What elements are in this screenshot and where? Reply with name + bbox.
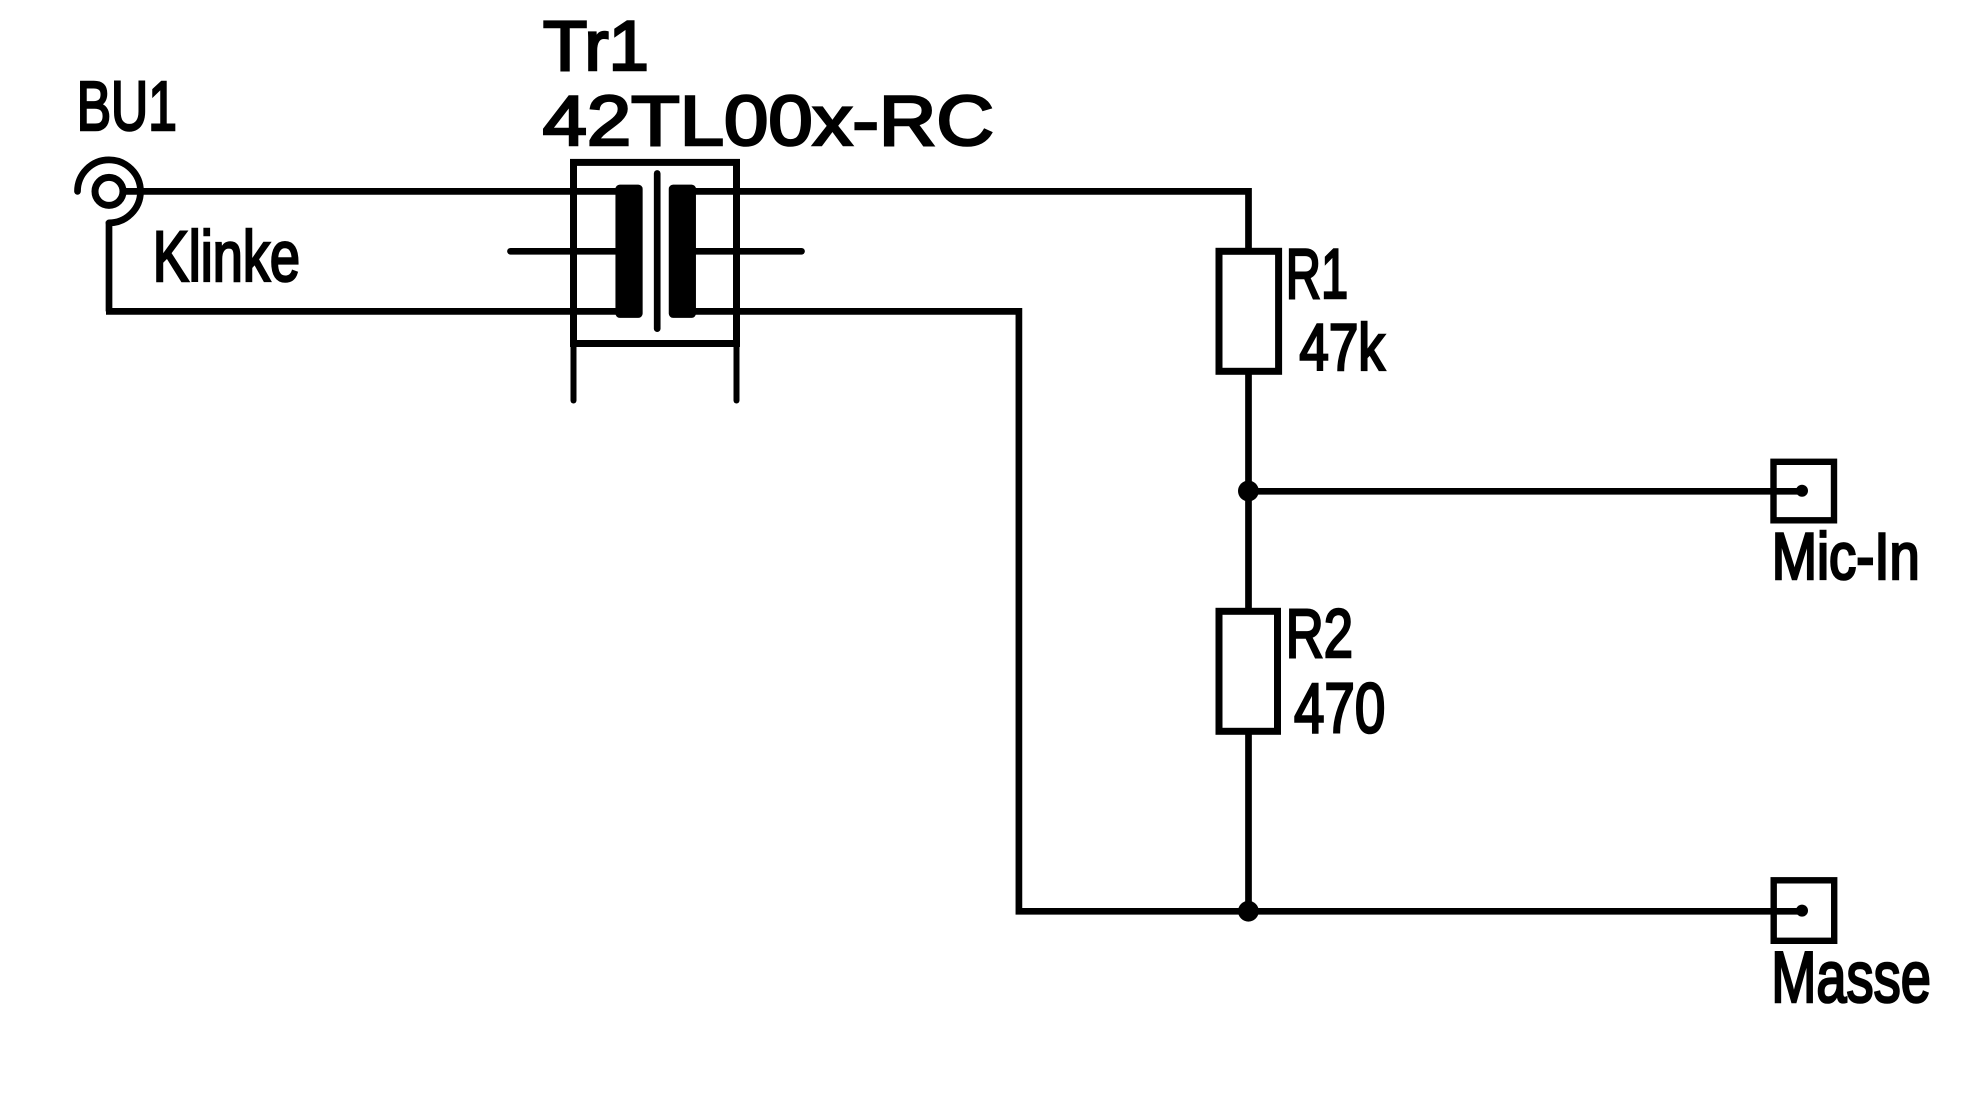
connector BU1 jack outer arc (78, 160, 141, 223)
pad Mic-In square (1774, 462, 1835, 521)
wire: jack BU1 tip to transformer primary top (net to Tr1 pin) (120, 188, 629, 195)
node B ground junction dot (1238, 901, 1259, 922)
svg-text:Mic-In: Mic-In (1772, 520, 1920, 593)
pad Masse pin dot (1796, 905, 1808, 917)
svg-text:42TL00x-RC: 42TL00x-RC (543, 81, 994, 160)
pad Mic-In pin dot (1796, 485, 1808, 497)
connector BU1 jack inner ring (95, 177, 123, 205)
node A junction dot (1238, 481, 1259, 502)
svg-text:Tr1: Tr1 (543, 7, 649, 86)
wire: jack sleeve to transformer primary bottom (106, 308, 629, 315)
svg-text:470: 470 (1294, 669, 1385, 748)
transformer Tr1 core line (654, 174, 661, 329)
transformer U1 Tr1 outline box (574, 162, 737, 343)
wire: transformer secondary top lead to corner, down to resistor R1 (682, 191, 1249, 254)
resistor R1 body (1219, 251, 1279, 371)
svg-text:Klinke: Klinke (153, 217, 300, 297)
transformer Tr1 right mounting leg (734, 344, 740, 401)
wire: node A to Mic-In pad (1249, 488, 1799, 495)
resistor R2 body (1219, 611, 1278, 731)
svg-text:Masse: Masse (1771, 937, 1931, 1018)
svg-text:BU1: BU1 (77, 67, 177, 145)
wire: R1 bottom through node A down to R2 top (1245, 368, 1252, 614)
svg-text:R2: R2 (1286, 595, 1353, 672)
transformer Tr1 secondary winding bar (672, 188, 693, 315)
wire: jack sleeve down from BU1 (106, 222, 113, 312)
wire: transformer secondary bottom lead, down and right to ground rail (682, 311, 1798, 911)
transformer Tr1 secondary center-tap stub pin (682, 248, 802, 255)
svg-text:R1: R1 (1286, 235, 1348, 314)
transformer Tr1 primary center-tap stub pin (511, 248, 630, 255)
pad Masse square (1774, 880, 1835, 941)
transformer Tr1 primary winding bar (619, 188, 640, 315)
transformer Tr1 left mounting leg (571, 344, 577, 401)
svg-text:47k: 47k (1299, 311, 1385, 385)
wire: R2 bottom down to ground node B (1245, 728, 1252, 908)
